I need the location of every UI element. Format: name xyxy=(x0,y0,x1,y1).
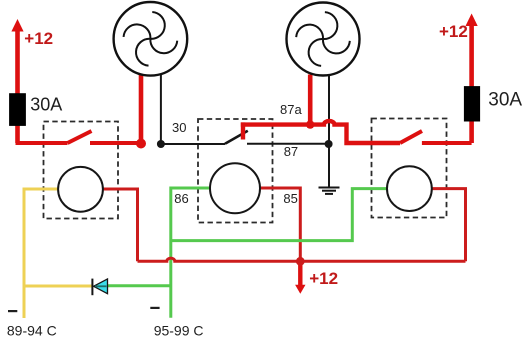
svg-text:87a: 87a xyxy=(280,102,302,117)
svg-text:30: 30 xyxy=(172,120,186,135)
svg-text:85: 85 xyxy=(283,191,297,206)
svg-text:+12: +12 xyxy=(439,22,468,41)
svg-text:95-99 C: 95-99 C xyxy=(154,322,204,338)
svg-text:86: 86 xyxy=(174,191,188,206)
svg-text:89-94 C: 89-94 C xyxy=(7,322,57,338)
svg-text:87: 87 xyxy=(284,144,298,159)
svg-text:30A: 30A xyxy=(488,90,522,111)
svg-text:+12: +12 xyxy=(24,29,53,48)
svg-text:+12: +12 xyxy=(309,269,338,288)
svg-text:30A: 30A xyxy=(30,95,62,115)
